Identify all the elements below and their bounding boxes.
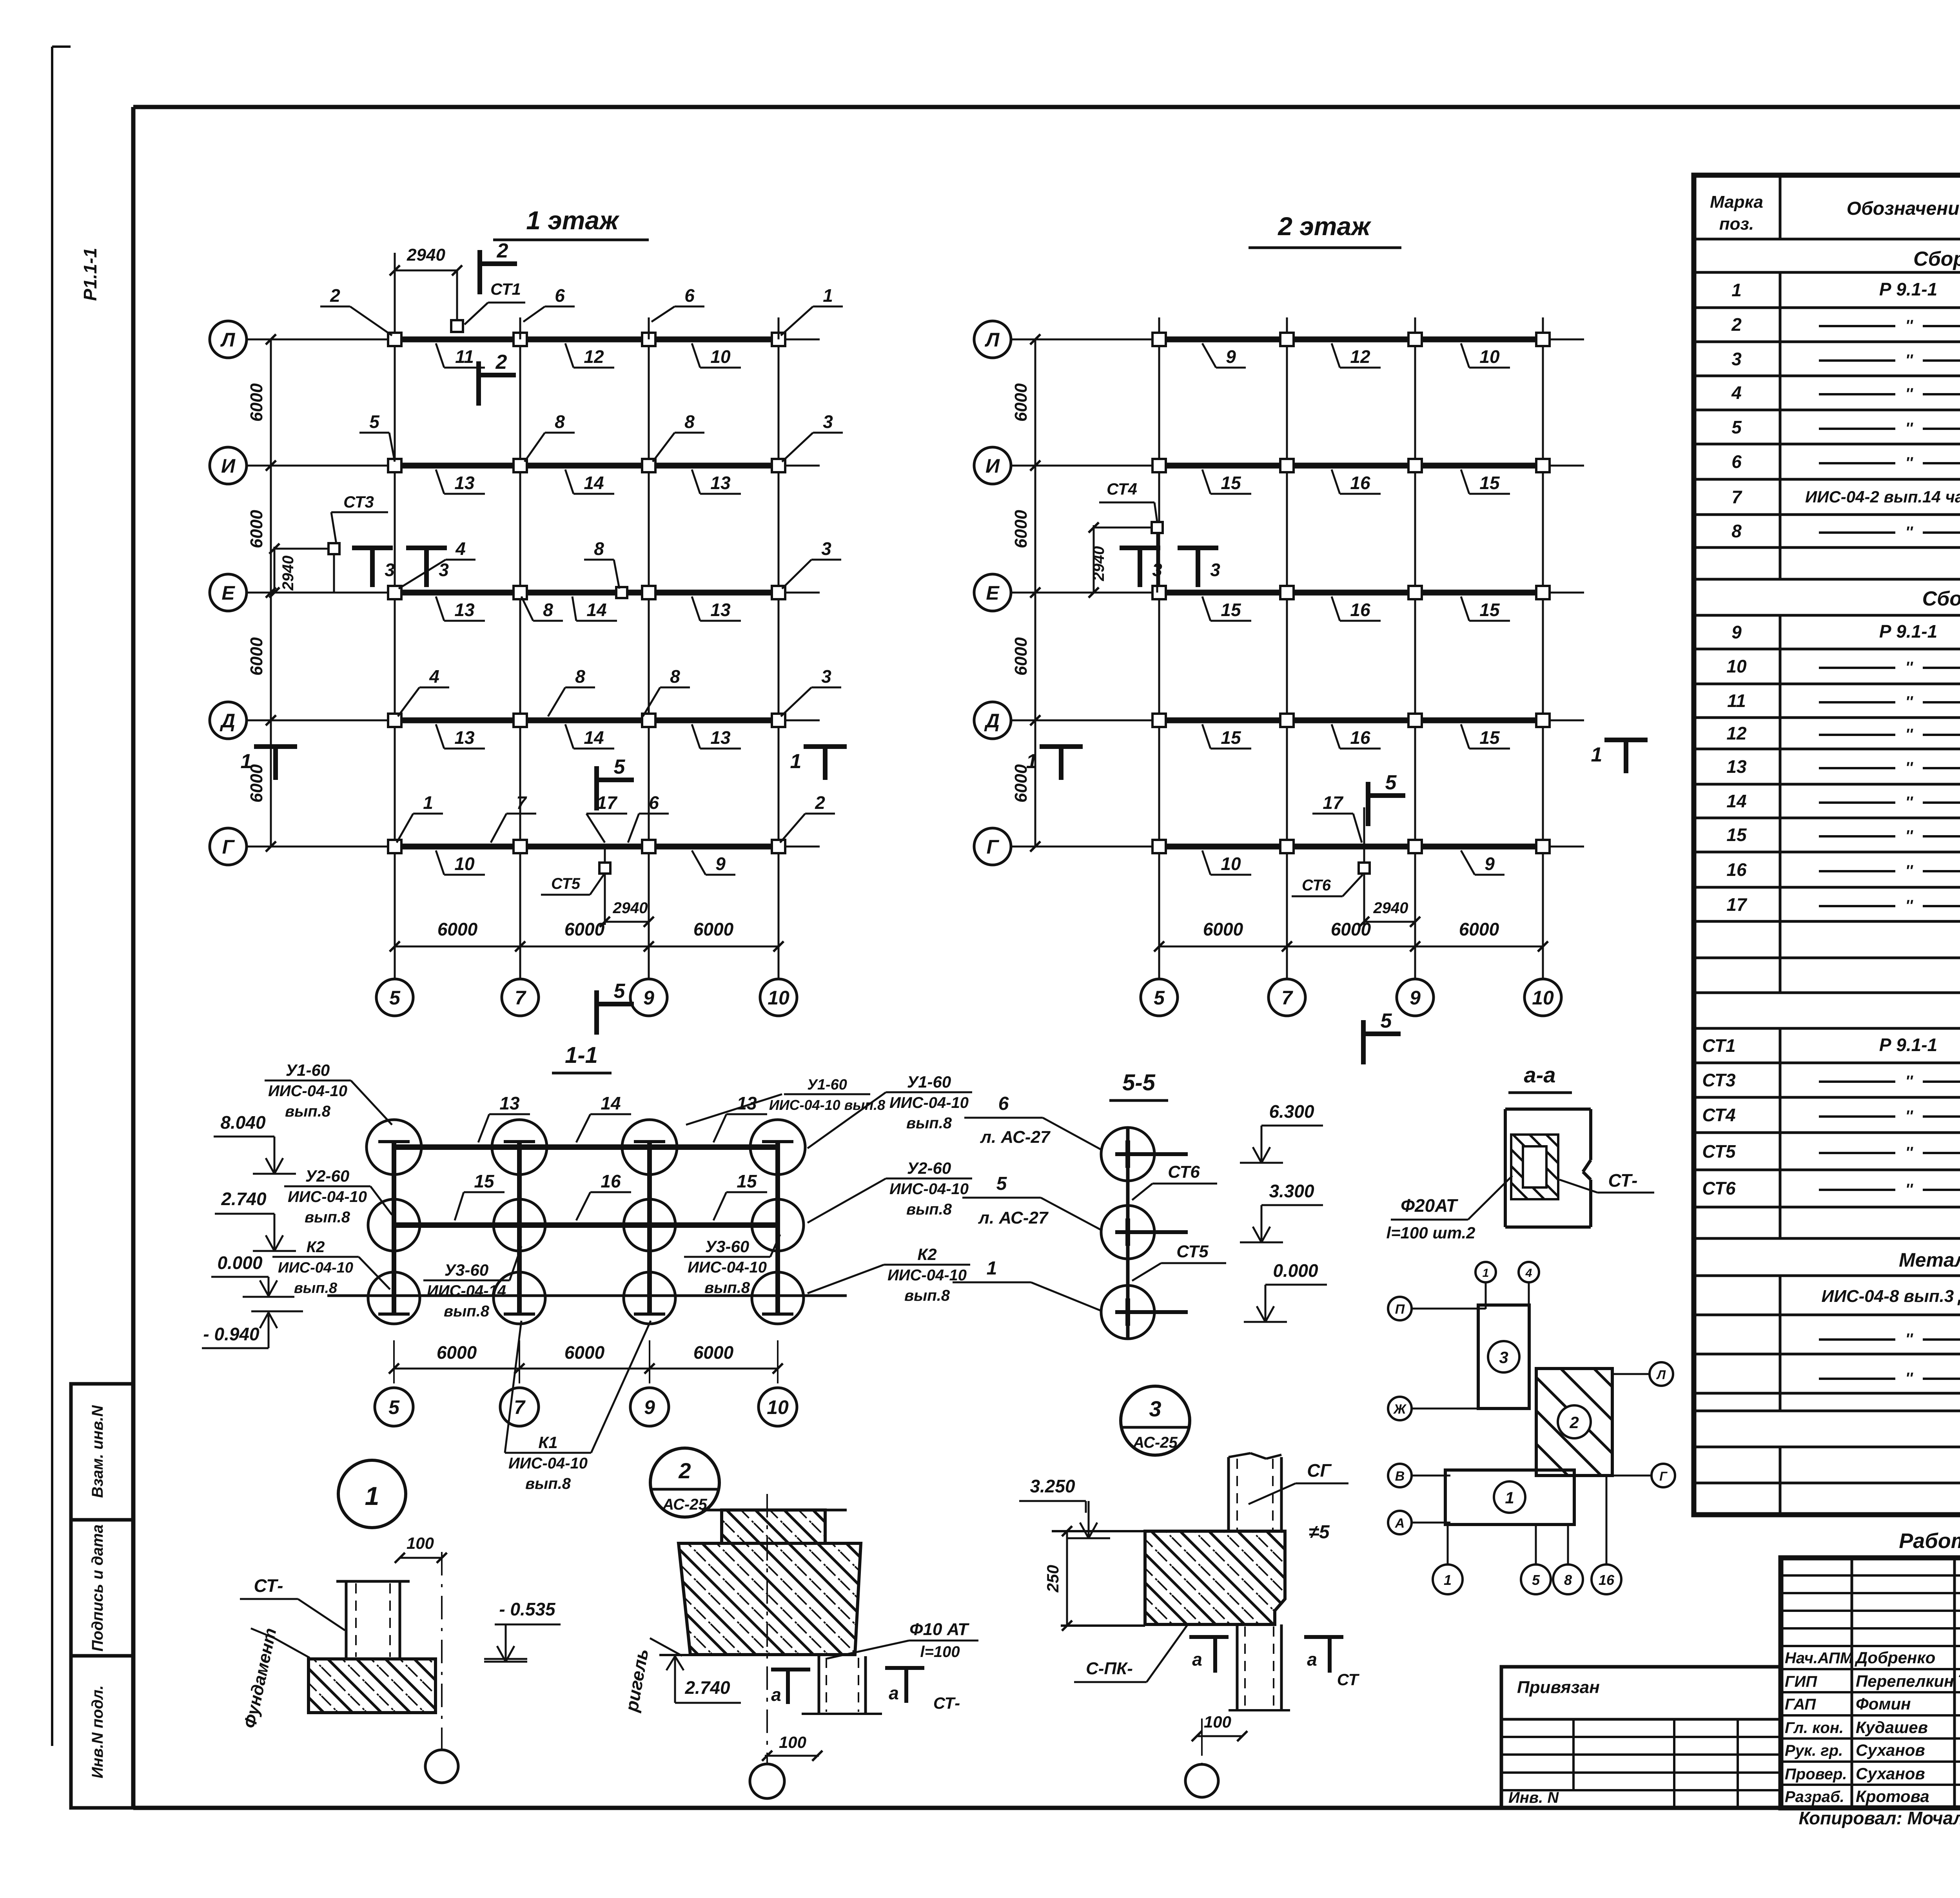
svg-text:Кротова: Кротова bbox=[1856, 1787, 1929, 1806]
svg-text:11: 11 bbox=[1727, 691, 1746, 711]
svg-text:9: 9 bbox=[643, 987, 654, 1009]
svg-text:10: 10 bbox=[1479, 346, 1500, 367]
TITLE BLOCK bbox=[1501, 1558, 1960, 1828]
svg-text:15: 15 bbox=[1479, 473, 1500, 493]
DETAIL 1 (foundation) bbox=[240, 1460, 561, 1783]
svg-text:5: 5 bbox=[1532, 1572, 1540, 1588]
svg-text:3: 3 bbox=[823, 412, 833, 432]
svg-text:6000: 6000 bbox=[1459, 919, 1499, 939]
svg-text:6: 6 bbox=[684, 285, 695, 306]
svg-text:6: 6 bbox=[998, 1093, 1009, 1114]
svg-text:6: 6 bbox=[1731, 451, 1742, 472]
svg-text:5: 5 bbox=[388, 1396, 400, 1418]
svg-text:СГ: СГ bbox=[1307, 1460, 1332, 1481]
svg-text:Сборные ж-б. ригели: Сборные ж-б. ригели bbox=[1922, 587, 1960, 610]
svg-text:3: 3 bbox=[1149, 1396, 1161, 1421]
bottom dim line section 1-1 bbox=[394, 1368, 778, 1370]
a flags det3 bbox=[1189, 1635, 1229, 1639]
CT5 stub below row Г with dim 2940 bbox=[604, 847, 606, 925]
svg-text:Д: Д bbox=[220, 710, 235, 732]
svg-text:1: 1 bbox=[1731, 280, 1742, 300]
beams of section 1-1 bbox=[394, 1144, 778, 1150]
svg-text:'': '' bbox=[1905, 317, 1913, 334]
svg-text:2.740: 2.740 bbox=[221, 1189, 267, 1209]
svg-text:6000: 6000 bbox=[247, 383, 266, 422]
svg-text:2940: 2940 bbox=[279, 556, 297, 591]
svg-text:1: 1 bbox=[823, 285, 833, 306]
svg-text:ИИС-04-10: ИИС-04-10 bbox=[889, 1180, 969, 1198]
svg-text:вып.8: вып.8 bbox=[906, 1201, 952, 1218]
beam hatched det3 bbox=[1145, 1531, 1285, 1624]
svg-text:13: 13 bbox=[454, 600, 475, 620]
column squares at intersections bbox=[1152, 333, 1166, 346]
svg-text:л. АС-27: л. АС-27 bbox=[980, 1128, 1051, 1147]
svg-text:17: 17 bbox=[597, 792, 618, 813]
svg-text:С-ПК-: С-ПК- bbox=[1086, 1659, 1133, 1678]
svg-text:5: 5 bbox=[369, 412, 380, 432]
svg-text:'': '' bbox=[1905, 524, 1913, 541]
svg-text:а: а bbox=[1307, 1649, 1317, 1670]
svg-text:СТ4: СТ4 bbox=[1702, 1105, 1735, 1125]
svg-text:а-а: а-а bbox=[1524, 1062, 1556, 1087]
svg-text:Сборные ж-б. колонны: Сборные ж-б. колонны bbox=[1913, 248, 1960, 270]
svg-text:Гл. кон.: Гл. кон. bbox=[1785, 1719, 1844, 1737]
svg-text:2940: 2940 bbox=[407, 245, 445, 265]
svg-text:3: 3 bbox=[821, 538, 831, 559]
svg-text:вып.8: вып.8 bbox=[525, 1475, 571, 1492]
svg-text:Л: Л bbox=[1656, 1368, 1666, 1382]
svg-text:8: 8 bbox=[543, 600, 553, 620]
svg-text:а: а bbox=[771, 1684, 781, 1705]
svg-text:У2-60: У2-60 bbox=[907, 1159, 951, 1177]
svg-text:13: 13 bbox=[1726, 756, 1747, 777]
svg-text:И: И bbox=[985, 455, 1000, 477]
svg-text:2: 2 bbox=[815, 792, 825, 813]
vertical dimension line 6000 between axis rows bbox=[1034, 339, 1036, 847]
bottom dimension line and axis circles 5 7 9 10 bbox=[395, 946, 779, 948]
svg-text:Суханов: Суханов bbox=[1856, 1741, 1925, 1759]
svg-text:8: 8 bbox=[1564, 1572, 1572, 1588]
SECTION a-a bbox=[1386, 1062, 1654, 1242]
svg-text:У1-60: У1-60 bbox=[907, 1073, 951, 1091]
beams (rigels) along rows bbox=[1159, 337, 1543, 343]
svg-text:8.040: 8.040 bbox=[220, 1112, 266, 1133]
svg-text:1: 1 bbox=[365, 1481, 379, 1510]
svg-text:9: 9 bbox=[1226, 346, 1236, 367]
svg-text:6000: 6000 bbox=[1011, 510, 1031, 548]
PLAN: 2 этаж bbox=[974, 212, 1648, 1064]
block 2 hatched bbox=[1536, 1369, 1612, 1476]
svg-text:5: 5 bbox=[1381, 1010, 1392, 1032]
dim 100 bbox=[400, 1557, 442, 1559]
svg-text:СТ5: СТ5 bbox=[1176, 1242, 1209, 1261]
svg-text:Добренко: Добренко bbox=[1855, 1648, 1935, 1667]
svg-text:'': '' bbox=[1905, 1108, 1913, 1125]
section flags 5 plan2 bbox=[1366, 782, 1370, 826]
vertical dimension line 6000 between axis rows bbox=[270, 339, 272, 847]
svg-text:9: 9 bbox=[1485, 854, 1495, 874]
svg-text:16: 16 bbox=[1350, 727, 1370, 748]
svg-text:СТ6: СТ6 bbox=[1302, 877, 1331, 894]
beam bottom level extension bbox=[659, 1654, 690, 1656]
svg-text:5: 5 bbox=[1731, 417, 1742, 437]
section flags 5 bbox=[594, 766, 599, 810]
svg-text:6000: 6000 bbox=[437, 919, 478, 939]
svg-text:Рук. гр.: Рук. гр. bbox=[1785, 1742, 1843, 1759]
CT4 stub square dim flags bbox=[1156, 528, 1158, 593]
svg-text:ИИС-04-10: ИИС-04-10 bbox=[688, 1259, 767, 1276]
svg-text:вып.8: вып.8 bbox=[294, 1280, 338, 1296]
svg-text:16: 16 bbox=[1350, 600, 1370, 620]
column axis lines bbox=[394, 253, 396, 979]
svg-text:вып.8: вып.8 bbox=[444, 1303, 490, 1320]
svg-text:13: 13 bbox=[710, 473, 731, 493]
svg-text:СТ1: СТ1 bbox=[1702, 1035, 1735, 1056]
svg-text:Марка: Марка bbox=[1710, 192, 1763, 212]
svg-text:1: 1 bbox=[987, 1258, 997, 1279]
svg-text:12: 12 bbox=[584, 346, 604, 367]
svg-text:5: 5 bbox=[614, 756, 626, 778]
svg-text:СТ3: СТ3 bbox=[343, 493, 374, 511]
svg-text:5: 5 bbox=[1154, 987, 1165, 1009]
svg-text:l=100: l=100 bbox=[920, 1643, 960, 1661]
svg-text:ИИС-04-10: ИИС-04-10 bbox=[288, 1188, 367, 1206]
CT1 square and label bbox=[451, 320, 463, 332]
svg-text:Обозначение: Обозначение bbox=[1847, 198, 1960, 219]
svg-text:Суханов: Суханов bbox=[1856, 1764, 1925, 1783]
svg-text:15: 15 bbox=[1221, 473, 1241, 493]
svg-text:8: 8 bbox=[684, 412, 695, 432]
svg-text:100: 100 bbox=[779, 1733, 806, 1751]
svg-text:Ж: Ж bbox=[1393, 1402, 1407, 1417]
svg-text:- 0.940: - 0.940 bbox=[203, 1324, 260, 1344]
svg-text:Ф20АТ: Ф20АТ bbox=[1401, 1195, 1459, 1216]
center axis detail 2 bbox=[766, 1494, 768, 1763]
svg-text:поз.: поз. bbox=[1719, 214, 1754, 234]
svg-text:8: 8 bbox=[575, 666, 585, 687]
svg-text:6000: 6000 bbox=[1203, 919, 1243, 939]
DETAIL 3 bbox=[1019, 1386, 1360, 1797]
svg-text:вып.8: вып.8 bbox=[285, 1103, 331, 1120]
svg-text:8: 8 bbox=[1731, 521, 1742, 541]
svg-text:17: 17 bbox=[1323, 792, 1344, 813]
svg-text:ИИС-04-10: ИИС-04-10 bbox=[887, 1267, 967, 1284]
svg-text:1: 1 bbox=[423, 792, 433, 813]
svg-text:ИИС-04-10: ИИС-04-10 bbox=[278, 1260, 353, 1276]
top axis circles bbox=[1475, 1262, 1496, 1282]
table content bbox=[1702, 248, 1960, 1486]
svg-text:ИИС-04-10: ИИС-04-10 bbox=[268, 1082, 347, 1100]
svg-text:вып.8: вып.8 bbox=[704, 1279, 750, 1296]
svg-text:5: 5 bbox=[996, 1173, 1007, 1194]
svg-text:15: 15 bbox=[1479, 727, 1500, 748]
svg-text:Нач.АПМ: Нач.АПМ bbox=[1785, 1650, 1854, 1667]
svg-text:100: 100 bbox=[407, 1534, 434, 1552]
right circles Л Г bbox=[1612, 1373, 1650, 1375]
svg-text:Инв.N подл.: Инв.N подл. bbox=[89, 1685, 106, 1778]
svg-text:Л: Л bbox=[220, 329, 236, 351]
svg-text:'': '' bbox=[1905, 897, 1913, 914]
column bbox=[345, 1581, 348, 1659]
svg-text:≠5: ≠5 bbox=[1308, 1522, 1330, 1543]
svg-text:100: 100 bbox=[1204, 1713, 1231, 1731]
svg-text:2 этаж: 2 этаж bbox=[1277, 212, 1372, 241]
svg-text:14: 14 bbox=[586, 600, 606, 620]
left stamp column bbox=[71, 1384, 133, 1520]
svg-text:4: 4 bbox=[1731, 383, 1742, 403]
svg-text:В: В bbox=[1395, 1469, 1405, 1484]
svg-text:вып.8: вып.8 bbox=[305, 1209, 350, 1226]
svg-text:2: 2 bbox=[1569, 1413, 1579, 1432]
svg-text:Металлические монтажные: Металлические монтажные детали (кг) bbox=[1899, 1249, 1960, 1271]
svg-text:'': '' bbox=[1905, 659, 1913, 676]
svg-text:10: 10 bbox=[454, 854, 475, 874]
section flag 2 below row Л bbox=[476, 361, 481, 406]
svg-text:'': '' bbox=[1905, 385, 1913, 402]
sheet frame bbox=[133, 105, 1960, 109]
svg-text:Провер.: Провер. bbox=[1785, 1766, 1847, 1783]
svg-text:1 этаж: 1 этаж bbox=[526, 206, 620, 235]
CT3 stub, square, dim 2940, flags 3 bbox=[333, 549, 335, 593]
svg-text:'': '' bbox=[1905, 794, 1913, 811]
svg-text:1: 1 bbox=[1444, 1572, 1452, 1588]
svg-text:Перепелкин: Перепелкин bbox=[1856, 1672, 1954, 1690]
svg-text:Разраб.: Разраб. bbox=[1785, 1788, 1844, 1806]
svg-text:СТ: СТ bbox=[1337, 1670, 1360, 1689]
svg-text:2: 2 bbox=[330, 285, 340, 306]
SECTION 5-5 bbox=[953, 1070, 1327, 1339]
bottom dimension line and axis circles 5 7 9 10 bbox=[1159, 946, 1543, 948]
svg-text:250: 250 bbox=[1044, 1565, 1062, 1593]
svg-text:13: 13 bbox=[710, 600, 731, 620]
svg-text:8: 8 bbox=[670, 666, 680, 687]
column squares at intersections bbox=[388, 333, 401, 346]
bottom axis circles bbox=[1447, 1525, 1449, 1564]
svg-text:16: 16 bbox=[1599, 1572, 1615, 1588]
section tee flags 1 bbox=[254, 744, 297, 749]
svg-text:l=100 шт.2: l=100 шт.2 bbox=[1386, 1224, 1475, 1242]
svg-text:И: И bbox=[221, 455, 236, 477]
svg-text:12: 12 bbox=[1726, 723, 1747, 743]
svg-text:'': '' bbox=[1905, 1181, 1913, 1198]
svg-text:СТ-: СТ- bbox=[254, 1575, 283, 1596]
svg-text:2: 2 bbox=[1731, 314, 1742, 335]
svg-text:А: А bbox=[1395, 1516, 1405, 1531]
svg-text:12: 12 bbox=[1350, 346, 1370, 367]
svg-text:Г: Г bbox=[987, 836, 1000, 858]
svg-text:Р 9.1-1: Р 9.1-1 bbox=[1879, 1035, 1937, 1055]
svg-text:7: 7 bbox=[1281, 987, 1293, 1009]
svg-text:2940: 2940 bbox=[613, 899, 648, 917]
svg-text:13: 13 bbox=[499, 1093, 520, 1113]
svg-text:7: 7 bbox=[1731, 487, 1742, 507]
svg-text:'': '' bbox=[1905, 352, 1913, 369]
svg-text:вып.8: вып.8 bbox=[904, 1287, 950, 1304]
svg-text:15: 15 bbox=[1221, 600, 1241, 620]
svg-text:У3-60: У3-60 bbox=[445, 1261, 489, 1279]
DETAIL 2 bbox=[621, 1448, 978, 1798]
svg-text:ИИС-04-14: ИИС-04-14 bbox=[427, 1282, 506, 1300]
svg-text:6000: 6000 bbox=[437, 1342, 477, 1363]
svg-text:СТ1: СТ1 bbox=[490, 280, 521, 298]
columns of section 1-1 bbox=[392, 1142, 396, 1314]
svg-text:17: 17 bbox=[1726, 894, 1748, 915]
svg-text:Ф10 АТ: Ф10 АТ bbox=[909, 1620, 969, 1639]
svg-text:6000: 6000 bbox=[247, 510, 266, 548]
svg-text:15: 15 bbox=[737, 1171, 757, 1191]
svg-text:5-5: 5-5 bbox=[1122, 1070, 1156, 1095]
svg-text:2940: 2940 bbox=[1373, 899, 1408, 917]
svg-text:15: 15 bbox=[1726, 825, 1747, 845]
svg-text:1-1: 1-1 bbox=[565, 1042, 598, 1068]
svg-text:'': '' bbox=[1905, 1144, 1913, 1161]
svg-text:9: 9 bbox=[644, 1396, 655, 1418]
svg-text:АС-25: АС-25 bbox=[1132, 1434, 1178, 1451]
extra column square row E bbox=[616, 587, 627, 598]
svg-text:6000: 6000 bbox=[1011, 383, 1031, 422]
montage key plan bbox=[1388, 1262, 1675, 1594]
svg-text:вып.8: вып.8 bbox=[906, 1115, 952, 1132]
svg-text:3: 3 bbox=[821, 666, 831, 687]
svg-text:8: 8 bbox=[555, 412, 565, 432]
svg-text:15: 15 bbox=[1221, 727, 1241, 748]
svg-text:13: 13 bbox=[454, 727, 475, 748]
lower column bbox=[818, 1656, 820, 1714]
привязан box bbox=[1501, 1667, 1781, 1808]
svg-text:1: 1 bbox=[1505, 1488, 1514, 1507]
embedded ring hatched bbox=[1511, 1135, 1558, 1199]
svg-text:3.250: 3.250 bbox=[1030, 1476, 1075, 1496]
svg-text:Е: Е bbox=[221, 582, 235, 604]
svg-text:1: 1 bbox=[1591, 743, 1602, 766]
svg-text:4: 4 bbox=[1525, 1267, 1532, 1280]
svg-text:СТ5: СТ5 bbox=[551, 875, 581, 892]
svg-text:'': '' bbox=[1905, 420, 1913, 437]
svg-text:6.300: 6.300 bbox=[1269, 1101, 1314, 1122]
svg-text:У2-60: У2-60 bbox=[305, 1167, 350, 1185]
svg-text:7: 7 bbox=[516, 792, 527, 813]
svg-text:1: 1 bbox=[241, 750, 252, 773]
svg-text:6000: 6000 bbox=[693, 919, 734, 939]
svg-text:5: 5 bbox=[1385, 771, 1397, 794]
svg-text:Д: Д bbox=[984, 710, 1000, 732]
svg-text:Г: Г bbox=[222, 836, 235, 858]
svg-text:'': '' bbox=[1905, 1073, 1913, 1090]
svg-text:ИИС-04-8 вып.3 Д.12: ИИС-04-8 вып.3 Д.12 bbox=[1822, 1287, 1960, 1306]
svg-text:16: 16 bbox=[601, 1171, 621, 1191]
upper column det3 bbox=[1227, 1457, 1230, 1531]
svg-text:СТ6: СТ6 bbox=[1168, 1162, 1200, 1182]
svg-text:ГАП: ГАП bbox=[1785, 1696, 1816, 1713]
svg-text:'': '' bbox=[1905, 454, 1913, 471]
svg-text:Инв. N: Инв. N bbox=[1508, 1789, 1559, 1806]
svg-text:СТ4: СТ4 bbox=[1107, 480, 1137, 498]
column axis lines bbox=[1158, 317, 1160, 979]
svg-text:3: 3 bbox=[1499, 1348, 1508, 1367]
svg-text:а: а bbox=[1192, 1649, 1202, 1670]
svg-text:Г: Г bbox=[1659, 1469, 1668, 1483]
svg-text:6000: 6000 bbox=[564, 1342, 605, 1363]
svg-text:ИИС-04-10: ИИС-04-10 bbox=[889, 1094, 969, 1111]
joint circles section 1-1 bbox=[367, 1120, 421, 1175]
beams (rigels) along rows bbox=[395, 337, 779, 343]
svg-text:1: 1 bbox=[1483, 1267, 1489, 1280]
svg-text:16: 16 bbox=[1350, 473, 1370, 493]
svg-text:2: 2 bbox=[495, 351, 507, 373]
svg-text:СТ5: СТ5 bbox=[1702, 1141, 1736, 1162]
SECTION 1-1 bbox=[202, 1042, 972, 1492]
svg-text:У1-60: У1-60 bbox=[286, 1061, 330, 1079]
svg-text:СТ-: СТ- bbox=[1608, 1170, 1638, 1191]
svg-text:'': '' bbox=[1905, 726, 1913, 743]
svg-text:10: 10 bbox=[767, 1396, 789, 1418]
CT6 stub below row Г with dim bbox=[1363, 807, 1365, 925]
svg-text:10: 10 bbox=[1532, 987, 1554, 1009]
dim 2940 top bbox=[456, 270, 458, 326]
svg-text:Подпись и дата: Подпись и дата bbox=[89, 1525, 106, 1651]
svg-text:Работать совместно с листам: Работать совместно с листами АС-25-, АС-… bbox=[1899, 1529, 1960, 1553]
block 3 bbox=[1478, 1305, 1529, 1409]
svg-text:АС-25: АС-25 bbox=[662, 1496, 707, 1513]
svg-text:К2: К2 bbox=[917, 1245, 936, 1264]
svg-text:1: 1 bbox=[790, 750, 802, 773]
svg-text:Взам. инв.N: Взам. инв.N bbox=[89, 1405, 106, 1498]
svg-text:14: 14 bbox=[601, 1093, 621, 1113]
svg-text:9: 9 bbox=[1410, 987, 1421, 1009]
svg-text:10: 10 bbox=[1221, 854, 1241, 874]
svg-text:8: 8 bbox=[594, 538, 604, 559]
svg-text:У1-60: У1-60 bbox=[807, 1077, 847, 1093]
svg-text:3: 3 bbox=[1731, 349, 1742, 369]
svg-text:5: 5 bbox=[389, 987, 401, 1009]
svg-text:2940: 2940 bbox=[1090, 546, 1107, 582]
svg-text:15: 15 bbox=[474, 1171, 495, 1191]
axis row lines and circles bbox=[210, 321, 247, 358]
axis circles below section 1-1 bbox=[375, 1388, 413, 1426]
beam body hatched bbox=[679, 1543, 861, 1655]
svg-text:К2: К2 bbox=[307, 1238, 325, 1256]
svg-text:Кудашев: Кудашев bbox=[1856, 1718, 1928, 1737]
svg-text:7: 7 bbox=[514, 1396, 526, 1418]
svg-text:'': '' bbox=[1905, 827, 1913, 845]
section flag 2 top bbox=[477, 250, 482, 294]
axis row lines and circles bbox=[974, 321, 1011, 358]
outer concrete of a-a bbox=[1505, 1108, 1591, 1111]
svg-text:Е: Е bbox=[986, 582, 1000, 604]
svg-text:л. АС-27: л. АС-27 bbox=[978, 1208, 1049, 1227]
svg-text:ИИС-04-2 вып.14 часть 1: ИИС-04-2 вып.14 часть 1 bbox=[1805, 488, 1960, 506]
svg-text:СТ6: СТ6 bbox=[1702, 1178, 1736, 1198]
svg-text:2: 2 bbox=[497, 239, 508, 262]
svg-text:ИИС-04-10: ИИС-04-10 bbox=[508, 1455, 588, 1472]
svg-text:'': '' bbox=[1905, 759, 1913, 776]
svg-text:'': '' bbox=[1905, 862, 1913, 879]
svg-text:4: 4 bbox=[429, 666, 439, 687]
svg-text:11: 11 bbox=[455, 346, 474, 367]
svg-text:10: 10 bbox=[710, 346, 731, 367]
svg-text:2.740: 2.740 bbox=[684, 1677, 730, 1698]
svg-text:3: 3 bbox=[1210, 560, 1220, 580]
block 1 bbox=[1445, 1470, 1574, 1525]
svg-text:Привязан: Привязан bbox=[1517, 1678, 1600, 1697]
svg-text:10: 10 bbox=[1726, 656, 1747, 676]
foundation block hatched bbox=[309, 1659, 436, 1713]
a flags detail2 bbox=[771, 1668, 810, 1671]
svg-text:14: 14 bbox=[1726, 791, 1746, 811]
svg-text:К1: К1 bbox=[538, 1433, 557, 1452]
svg-text:6: 6 bbox=[649, 792, 659, 813]
svg-text:Р 9.1-1: Р 9.1-1 bbox=[1879, 279, 1937, 299]
